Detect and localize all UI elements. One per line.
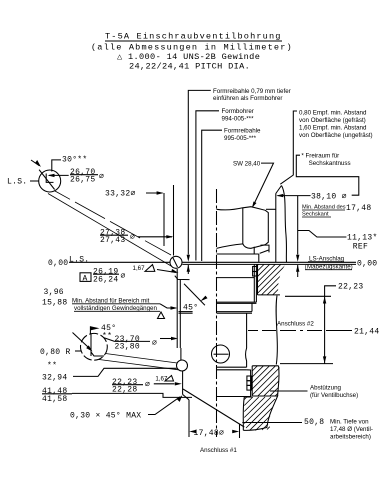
svg-text:Anschluss #1: Anschluss #1 bbox=[200, 447, 237, 454]
dim 3,96 bbox=[44, 288, 64, 297]
detail circle 2 (bottom corner 45deg / 0.8R) bbox=[73, 333, 108, 361]
projection lines from detail 1 bbox=[48, 191, 172, 267]
dim 22,23 (depth) bbox=[280, 283, 364, 364]
svg-text:11,13*: 11,13* bbox=[347, 234, 378, 243]
svg-text:von Oberfläche (ungefräst): von Oberfläche (ungefräst) bbox=[299, 132, 373, 139]
svg-text:**: ** bbox=[47, 362, 57, 371]
hatch block 2 (below port 2) bbox=[252, 366, 279, 396]
main centerline bbox=[216, 189, 218, 437]
svg-text:21,44: 21,44 bbox=[354, 328, 380, 337]
dim 15,88 Min. Abstand bbox=[42, 298, 193, 319]
svg-text:T-5A Einschraubventilbohrung: T-5A Einschraubventilbohrung bbox=[105, 32, 282, 42]
svg-text:17,48 Ø (Ventil-: 17,48 Ø (Ventil- bbox=[330, 426, 373, 433]
svg-text:L.S.: L.S. bbox=[69, 255, 89, 264]
callout: Formreibahle 995-005 bbox=[202, 128, 261, 262]
label SW 28,40 bbox=[233, 161, 274, 208]
svg-text:⌀: ⌀ bbox=[152, 339, 157, 348]
hatch block 3 (bottom right) bbox=[243, 396, 277, 431]
svg-text:⌀: ⌀ bbox=[130, 233, 135, 242]
svg-text:einführen als Formbohrer: einführen als Formbohrer bbox=[213, 95, 282, 102]
svg-text:* Freiraum für: * Freiraum für bbox=[301, 153, 339, 160]
svg-text:45°: 45° bbox=[183, 304, 198, 313]
svg-text:SW 28,40: SW 28,40 bbox=[233, 161, 261, 168]
dim 32,94 bbox=[42, 368, 177, 382]
hatch block 1 (flange area) bbox=[248, 214, 292, 348]
svg-text:Formreibahle 0,79 mm tiefer: Formreibahle 0,79 mm tiefer bbox=[213, 88, 291, 95]
dim 27,38/27,43 dia bbox=[100, 185, 174, 256]
svg-text:1,60 Empf. min. Abstand: 1,60 Empf. min. Abstand bbox=[299, 125, 367, 132]
svg-text:von Oberfläche (gefräst): von Oberfläche (gefräst) bbox=[299, 117, 366, 124]
svg-text:50,8: 50,8 bbox=[304, 418, 324, 427]
hex neck + washer bbox=[217, 247, 259, 263]
hex head (half section, right of CL) bbox=[217, 207, 269, 249]
Freiraum step right of hex bbox=[260, 245, 269, 253]
svg-text:17,48: 17,48 bbox=[346, 204, 372, 213]
svg-text:26,24: 26,24 bbox=[93, 276, 119, 285]
dim 45 deg (upper, bore chamfer) bbox=[183, 284, 208, 313]
svg-text:17,48⌀: 17,48⌀ bbox=[194, 429, 225, 438]
svg-text:0,00: 0,00 bbox=[357, 260, 377, 269]
svg-text:994-005-***: 994-005-*** bbox=[222, 116, 255, 123]
svg-text:A: A bbox=[83, 274, 88, 283]
svg-text:arbeitsbereich): arbeitsbereich) bbox=[330, 434, 371, 441]
note Abstuetzung bbox=[270, 385, 358, 400]
callout: 0,80/1,60 Empf. min. Abstand bbox=[280, 110, 372, 185]
break line (section break, bottom) bbox=[183, 389, 244, 427]
svg-text:L.S.: L.S. bbox=[7, 178, 27, 187]
cartridge body in bore bbox=[217, 264, 258, 396]
svg-text:0,80 Empf. min. Abstand: 0,80 Empf. min. Abstand bbox=[299, 110, 367, 117]
svg-text:REF: REF bbox=[353, 243, 368, 252]
dim 26,70/26,75 dia bbox=[48, 168, 105, 185]
dim 21,44 bbox=[326, 328, 380, 337]
svg-text:30°**: 30°** bbox=[62, 156, 88, 165]
dim A 26,19/26,24 dia 1,67 bbox=[80, 265, 179, 285]
dim 30 deg bbox=[31, 156, 88, 172]
note LS-Anschlag 0,00 bbox=[305, 255, 378, 271]
dim 23,70/23,80 dia bbox=[104, 335, 178, 352]
dim 41,48/41,58 bbox=[42, 387, 192, 404]
svg-text:27,43: 27,43 bbox=[100, 236, 126, 245]
label L.S. (left) bbox=[7, 178, 39, 187]
svg-text:(alle Abmessungen in Millimete: (alle Abmessungen in Millimeter) bbox=[91, 43, 293, 53]
dim 17,48 dia (bottom port) bbox=[189, 424, 239, 439]
svg-text:⌀: ⌀ bbox=[99, 173, 104, 182]
svg-text:Formreibahle: Formreibahle bbox=[224, 128, 261, 135]
title block bbox=[91, 32, 293, 72]
svg-text:0,30 × 45° MAX: 0,30 × 45° MAX bbox=[70, 412, 141, 421]
svg-text:⌀: ⌀ bbox=[145, 381, 150, 390]
boss strip (broken raw surface above LS) bbox=[266, 186, 287, 263]
svg-text:3,96: 3,96 bbox=[44, 288, 64, 297]
labels 0,00 / L.S. bbox=[48, 255, 89, 268]
svg-text:38,10 ⌀: 38,10 ⌀ bbox=[311, 193, 347, 202]
label Anschluss #2 + centerline bbox=[248, 321, 352, 331]
dim 33,32 dia bbox=[105, 190, 164, 247]
dim 11,13 REF bbox=[298, 231, 378, 252]
svg-text:(für Ventilbuchse): (für Ventilbuchse) bbox=[310, 392, 358, 399]
svg-text:22,23: 22,23 bbox=[338, 283, 364, 292]
dim 0,30 x 45 MAX bbox=[70, 395, 182, 420]
dim 38,10 dia bbox=[276, 193, 346, 202]
svg-text:33,32⌀: 33,32⌀ bbox=[105, 190, 136, 199]
svg-text:995-005-***: 995-005-*** bbox=[224, 135, 257, 142]
dim 50,8 Min. Tiefe bbox=[242, 418, 373, 441]
dim 22,23/22,28 dia 1,67 bbox=[112, 375, 182, 394]
callout: Formbohrer 994-005 bbox=[196, 108, 254, 261]
svg-text:1,67: 1,67 bbox=[133, 265, 146, 272]
svg-text:26,75: 26,75 bbox=[70, 175, 96, 184]
label 45 deg ** with flag (detail 2) bbox=[90, 324, 116, 341]
svg-text:⌀: ⌀ bbox=[121, 272, 126, 281]
note Min. Abstand des Sechskant + 17,48 bbox=[296, 196, 372, 277]
svg-text:23,80: 23,80 bbox=[115, 342, 141, 351]
svg-text:41,58: 41,58 bbox=[42, 395, 68, 404]
svg-text:Sechskantnuss: Sechskantnuss bbox=[309, 160, 351, 167]
callout: Freiraum fuer Sechskantnuss bbox=[296, 153, 359, 196]
callout: Formreibahle 0,79 mm tiefer bbox=[187, 88, 291, 274]
cartridge cross-drill circle bbox=[212, 345, 230, 363]
svg-text:15,88: 15,88 bbox=[42, 298, 68, 307]
svg-text:Min. Tiefe von: Min. Tiefe von bbox=[330, 419, 369, 426]
bore wall left (thread + lands) bbox=[170, 256, 190, 437]
svg-text:0,80 R: 0,80 R bbox=[40, 348, 71, 357]
projection lines from detail 2 to corner circle bbox=[99, 354, 179, 370]
svg-text:0,00: 0,00 bbox=[48, 259, 68, 268]
LS surface line bbox=[69, 262, 356, 264]
detail circle 1 (thread entry 30 deg) bbox=[39, 170, 61, 192]
svg-text:32,94: 32,94 bbox=[42, 373, 68, 382]
svg-text:Abstützung: Abstützung bbox=[310, 385, 342, 392]
svg-text:Formbohrer: Formbohrer bbox=[222, 108, 254, 115]
label 0,80 R ** bbox=[40, 348, 81, 371]
svg-text:24,22/24,41 PITCH DIA.: 24,22/24,41 PITCH DIA. bbox=[129, 61, 250, 71]
port 2 back wall (broken) bbox=[276, 296, 277, 365]
svg-text:Anschluss #2: Anschluss #2 bbox=[277, 321, 314, 328]
